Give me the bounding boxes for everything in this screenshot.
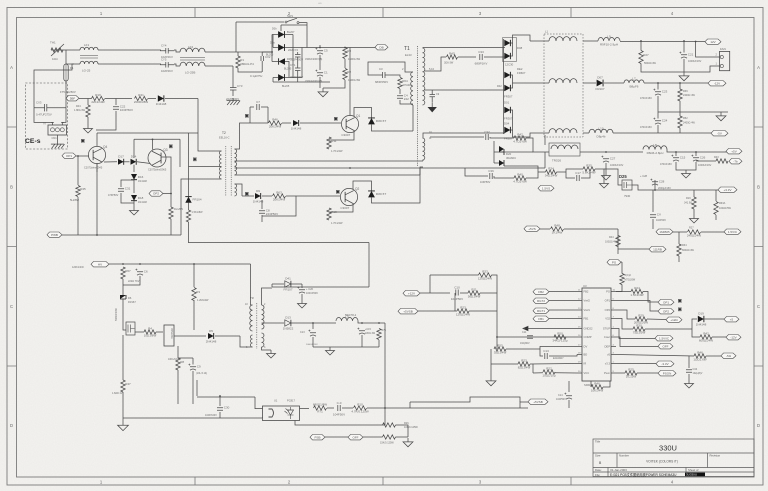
svg-text:R27: R27 bbox=[689, 227, 694, 230]
rect box outlines bbox=[503, 38, 517, 62]
svg-text:PSB: PSB bbox=[314, 435, 320, 439]
wire PG to RC2 bbox=[621, 262, 623, 274]
resistor R2 bbox=[343, 69, 352, 80]
svg-text:R3: R3 bbox=[196, 290, 200, 294]
resistor R11b bbox=[468, 287, 481, 298]
svg-text:104F50V: 104F50V bbox=[333, 413, 345, 417]
resistor R48s bbox=[447, 52, 458, 60]
capacitor CY3 bbox=[226, 84, 243, 101]
wire down to R44c bbox=[617, 229, 619, 254]
svg-text:1.5K1/8W: 1.5K1/8W bbox=[192, 211, 204, 214]
U3 right pin Cosc bbox=[611, 336, 616, 338]
svg-text:Q3: Q3 bbox=[163, 148, 167, 152]
node +5VSB flag bbox=[398, 309, 418, 314]
wire bridge + column bbox=[301, 48, 303, 78]
diode D9 bbox=[253, 189, 264, 204]
wire L1 to D07 bbox=[583, 82, 596, 84]
wire drive bottom rail bbox=[62, 234, 181, 236]
wire pair3 bar link bbox=[511, 110, 513, 130]
inductor L5 bbox=[336, 315, 358, 321]
svg-text:D03: D03 bbox=[287, 58, 292, 61]
wire C30 up bbox=[219, 396, 221, 406]
svg-text:R47: R47 bbox=[125, 382, 131, 386]
U3 left pin Vref2 bbox=[577, 300, 582, 302]
wire to C13s bbox=[312, 323, 314, 329]
junction R67 bbox=[122, 263, 124, 265]
svg-text:164B05: 164B05 bbox=[659, 230, 670, 234]
capacitor C6 bbox=[135, 269, 148, 276]
wire R42b to -12 flag bbox=[712, 336, 726, 338]
ground below D18 bbox=[130, 207, 139, 215]
node FB2 bbox=[533, 289, 549, 294]
ground below R44 bbox=[84, 125, 93, 133]
svg-text:FRD.5T: FRD.5T bbox=[376, 192, 387, 196]
svg-text:C13: C13 bbox=[300, 331, 305, 334]
wire Q3 box left down bbox=[133, 139, 135, 158]
svg-text:162p50V: 162p50V bbox=[520, 342, 530, 345]
wire to D19 bbox=[692, 319, 697, 329]
wire D17 to D14 bbox=[124, 161, 130, 163]
svg-text:L7: L7 bbox=[632, 77, 636, 81]
saturable core TRG26 bbox=[549, 143, 580, 156]
svg-text:1N4148: 1N4148 bbox=[156, 102, 167, 106]
wire C21 bottom bbox=[683, 59, 685, 72]
wire T3 sec low bbox=[262, 347, 272, 350]
wire HV to R3s bbox=[193, 264, 195, 287]
svg-text:V32: V32 bbox=[605, 317, 610, 321]
svg-text:C17: C17 bbox=[575, 171, 581, 175]
U3 left pin Vref1 bbox=[577, 309, 582, 311]
wire HV rail bbox=[109, 263, 251, 265]
junction R75 bbox=[378, 322, 380, 324]
wire bottom rail start bbox=[273, 81, 281, 83]
wire drive top rail bbox=[97, 132, 198, 134]
svg-text:+3.3V: +3.3V bbox=[724, 188, 732, 192]
capacitor C21 bbox=[679, 52, 693, 59]
svg-text:D13: D13 bbox=[285, 316, 291, 320]
svg-text:+5: +5 bbox=[730, 317, 734, 321]
svg-text:v5: v5 bbox=[607, 353, 610, 357]
svg-text:FR307: FR307 bbox=[504, 137, 513, 141]
wire R44b to bottom rail bbox=[170, 219, 172, 235]
wire CX2 top to bridge bbox=[262, 51, 272, 53]
wire d4 tap down bbox=[272, 78, 274, 83]
ground 3.3V divider bbox=[690, 215, 699, 223]
resistor R55 bbox=[494, 343, 507, 354]
wire opto collector out bbox=[300, 408, 310, 410]
svg-text:R8: R8 bbox=[180, 360, 184, 364]
wire R1 top bbox=[237, 52, 239, 56]
svg-text:C21: C21 bbox=[688, 53, 694, 57]
U3 right pin OP2 bbox=[611, 309, 616, 311]
high voltage mark near Q4 bbox=[81, 139, 85, 143]
svg-text:C3007: C3007 bbox=[340, 206, 349, 210]
wire R46b up bbox=[590, 381, 592, 387]
wire pair2 bar link bbox=[511, 75, 513, 88]
wire R41 to D08 bbox=[148, 98, 156, 100]
svg-text:FR107: FR107 bbox=[595, 87, 604, 91]
wire bridge right column bbox=[292, 35, 294, 78]
svg-text:D18: D18 bbox=[138, 196, 144, 200]
wire D20 input column bbox=[493, 141, 495, 163]
node 1.5V/C bbox=[724, 229, 741, 234]
junction OP2 bbox=[170, 193, 172, 195]
wire D19 to +5 flag bbox=[705, 318, 725, 320]
wire to R34m bbox=[538, 171, 546, 173]
svg-text:es: es bbox=[318, 1, 322, 5]
svg-text:R35: R35 bbox=[586, 163, 592, 167]
wire PG stub bbox=[621, 261, 622, 263]
svg-text:C36: C36 bbox=[488, 169, 494, 173]
node +5VSB right bbox=[528, 399, 548, 404]
wire R48s to C33 bbox=[458, 56, 476, 58]
U3 right pin DEP bbox=[611, 346, 616, 348]
wire sense bridge bbox=[454, 293, 456, 311]
wire into TRG26 bbox=[545, 151, 549, 153]
svg-text:Size: Size bbox=[595, 454, 601, 458]
svg-text:D01: D01 bbox=[504, 101, 510, 105]
capacitor C22 bbox=[113, 105, 133, 113]
wire 5VSB flag to R23 bbox=[418, 310, 457, 312]
svg-text:C5: C5 bbox=[324, 49, 328, 53]
title block file highlight bbox=[685, 473, 705, 477]
junction + rail R3 bbox=[344, 47, 346, 49]
svg-text:HV: HV bbox=[98, 262, 102, 266]
wire R24 to OP1 bbox=[643, 292, 658, 303]
wire R27b to 1.5V/C bbox=[701, 231, 724, 233]
svg-text:0.1μf275v: 0.1μf275v bbox=[250, 74, 263, 78]
PWM controller U3 body bbox=[582, 284, 611, 387]
inductor L10 bbox=[589, 127, 613, 139]
T3 primary winding bbox=[250, 305, 253, 331]
capacitor C3 bbox=[375, 67, 393, 84]
wire ground to FAN pin1 bbox=[684, 66, 720, 72]
wire L1 to L9 bbox=[583, 40, 598, 42]
wire T2 rail 1 bbox=[240, 160, 423, 162]
resistor R26 bbox=[383, 423, 396, 427]
svg-text:BL205: BL205 bbox=[266, 54, 274, 57]
wire to R26 bbox=[383, 408, 386, 425]
wire to DV pin bbox=[540, 347, 577, 350]
U3 left pin FB1 bbox=[577, 318, 582, 320]
wire R63A down bbox=[715, 215, 717, 220]
svg-text:R46: R46 bbox=[594, 381, 600, 385]
wire C13b to BD pin bbox=[549, 355, 577, 357]
svg-text:1000UF10V: 1000UF10V bbox=[610, 164, 624, 167]
mosfet U2 5N60 bbox=[115, 307, 135, 335]
resistor R42 bbox=[513, 132, 527, 143]
wire to 1.5V/IC bbox=[616, 329, 655, 339]
wire bridge d3 apex bbox=[272, 61, 279, 63]
svg-text:Vref1: Vref1 bbox=[584, 308, 591, 312]
svg-text:FB2: FB2 bbox=[584, 290, 589, 294]
node -5V bbox=[711, 131, 728, 136]
wire rect pair1 to L1 +12V bbox=[511, 35, 531, 43]
wire R44 to ground bbox=[87, 117, 89, 125]
svg-text:200R1/8W: 200R1/8W bbox=[134, 100, 148, 104]
capacitor C10 bbox=[451, 285, 463, 301]
svg-text:R6Ω6-2.8μH: R6Ω6-2.8μH bbox=[647, 151, 664, 155]
junction R27 bbox=[640, 40, 642, 42]
svg-text:1N4148: 1N4148 bbox=[291, 126, 302, 130]
svg-text:341.9Ω: 341.9Ω bbox=[684, 202, 692, 205]
wire +5V rail bbox=[667, 150, 735, 153]
inductor L8 bbox=[643, 143, 667, 155]
svg-text:B: B bbox=[757, 185, 760, 190]
resistor R46c bbox=[693, 350, 706, 361]
diode D0A rect bbox=[504, 53, 510, 59]
svg-text:File:: File: bbox=[595, 473, 601, 477]
wire D6z down bbox=[122, 299, 124, 320]
wire Q3 box right down bbox=[179, 139, 181, 167]
wire into L1 +12V winding bbox=[530, 40, 549, 42]
svg-text:2000μF16V: 2000μF16V bbox=[658, 187, 671, 190]
svg-text:R22: R22 bbox=[546, 366, 552, 370]
svg-text:FR107: FR107 bbox=[283, 288, 292, 292]
svg-text:120Ω1/4W: 120Ω1/4W bbox=[478, 277, 492, 281]
wire +5VS to R48b bbox=[540, 228, 550, 230]
wire C22 down bbox=[96, 111, 116, 130]
svg-text:1.7K1/4W: 1.7K1/4W bbox=[331, 221, 343, 225]
wire R71 to C10b bbox=[327, 407, 334, 409]
svg-text:2400Ω 4W: 2400Ω 4W bbox=[683, 122, 696, 125]
T3 secondary winding 2 bbox=[262, 333, 264, 347]
svg-text:12V: 12V bbox=[710, 40, 715, 44]
svg-text:+12V: +12V bbox=[408, 291, 415, 295]
capacitor C24 bbox=[653, 118, 667, 125]
svg-text:110F50V: 110F50V bbox=[656, 219, 666, 222]
svg-text:L8: L8 bbox=[653, 143, 657, 147]
svg-text:5.8K1/4W: 5.8K1/4W bbox=[582, 171, 595, 175]
svg-text:12C30: 12C30 bbox=[505, 63, 514, 67]
svg-text:0.47UF275V: 0.47UF275V bbox=[36, 113, 52, 117]
svg-text:RGT1: RGT1 bbox=[537, 309, 545, 313]
wire PSB to OFF bbox=[325, 436, 348, 438]
wire sense link bbox=[429, 275, 431, 293]
svg-text:D5: D5 bbox=[209, 329, 213, 333]
junction C15b bbox=[675, 151, 677, 153]
svg-text:82Ω1/4W: 82Ω1/4W bbox=[518, 366, 531, 370]
svg-text:LG-25: LG-25 bbox=[82, 69, 91, 73]
svg-text:D0a: D0a bbox=[270, 42, 275, 45]
svg-text:222: 222 bbox=[404, 97, 409, 101]
svg-text:CY4: CY4 bbox=[161, 44, 167, 48]
wire C17 right bbox=[581, 172, 590, 178]
resistor R17 bbox=[383, 435, 396, 439]
resistor R29 bbox=[634, 313, 648, 324]
wire d1 out bbox=[285, 34, 293, 36]
wire T2 rail3 stub bbox=[235, 174, 241, 176]
resistor R19 bbox=[91, 93, 105, 104]
wire to R43 bbox=[696, 160, 716, 162]
diode D07 bbox=[595, 75, 604, 90]
wire R26 to gnd col bbox=[396, 425, 409, 437]
svg-text:Q4: Q4 bbox=[103, 145, 107, 149]
svg-text:7930: 7930 bbox=[624, 194, 631, 198]
wire PS-ON rail to 5VSB flag bbox=[367, 407, 528, 409]
inductor L9 bbox=[598, 35, 620, 47]
wire D11 out bbox=[291, 283, 302, 285]
node +5V return bbox=[729, 159, 742, 164]
resistor R44b bbox=[169, 207, 173, 219]
capacitor C36 bbox=[488, 169, 494, 179]
chassis ground at inlet bbox=[51, 142, 65, 149]
wire bridge top to SW node bbox=[281, 24, 307, 26]
svg-text:C9: C9 bbox=[197, 365, 201, 369]
svg-text:R2: R2 bbox=[347, 70, 351, 74]
svg-text:C1: C1 bbox=[324, 71, 328, 75]
resistor R46b bbox=[591, 381, 604, 392]
wire U2 to R4 bbox=[135, 331, 144, 333]
wire C6 down bbox=[123, 276, 140, 285]
junction C6 bbox=[139, 263, 141, 265]
wire to R22 bbox=[533, 372, 543, 374]
node RGT2 bbox=[533, 298, 549, 303]
resistor R71 bbox=[313, 402, 327, 413]
wire to R19b bbox=[693, 190, 695, 197]
wire R04 to C4 bbox=[399, 89, 401, 94]
node PG bbox=[607, 260, 621, 265]
wire to R42b bbox=[692, 329, 700, 337]
svg-text:(10L-5.1b): (10L-5.1b) bbox=[196, 372, 207, 375]
svg-text:222Ω 7KV: 222Ω 7KV bbox=[128, 280, 140, 283]
node OFF bbox=[658, 344, 673, 349]
wire C26a down bbox=[301, 294, 303, 300]
wire base node to R45 bbox=[77, 156, 79, 185]
wire T2 lower to D9 stub bbox=[242, 195, 254, 197]
transistor Q2 bbox=[340, 187, 359, 210]
svg-text:FAN: FAN bbox=[720, 47, 726, 51]
wire CY1 to bottom rail bbox=[297, 75, 299, 83]
wire RGT1 to U3 bbox=[549, 309, 577, 311]
svg-text:+C15: +C15 bbox=[365, 328, 371, 331]
wire d4 out bbox=[285, 77, 302, 79]
wire C5 to C1 bbox=[319, 55, 321, 70]
svg-text:10K1/10V: 10K1/10V bbox=[168, 358, 179, 361]
U3 right pin v5 bbox=[611, 354, 616, 356]
svg-text:R43: R43 bbox=[714, 156, 719, 159]
wire link top bbox=[430, 274, 455, 276]
wire to R30 bbox=[616, 319, 633, 330]
wire C8 to base node bbox=[262, 196, 296, 216]
svg-text:Sheet of: Sheet of bbox=[688, 468, 699, 472]
svg-text:R23: R23 bbox=[460, 305, 466, 309]
wire D20 bottom out bbox=[504, 166, 538, 168]
junction HV R3s bbox=[193, 263, 195, 265]
svg-text:Cosc: Cosc bbox=[604, 335, 611, 339]
FAN connector J1 bbox=[716, 47, 730, 71]
wire R33 left bbox=[455, 274, 479, 276]
wire d4 left bbox=[273, 77, 278, 79]
capacitor C33 bbox=[475, 50, 488, 66]
wire C7 right bbox=[261, 106, 268, 108]
wire R35 to ground bbox=[595, 169, 604, 180]
U3 right pin OP1 bbox=[611, 300, 616, 302]
svg-text:IR: IR bbox=[584, 362, 587, 366]
wire to R29 bbox=[616, 310, 635, 319]
wire C10 to R11b bbox=[460, 292, 468, 294]
junction bottom rail Q4 bbox=[96, 234, 98, 236]
wire Q3 base to OP2 column bbox=[162, 157, 172, 194]
wire R46 to D6 bbox=[282, 122, 291, 124]
capacitor C9 bbox=[188, 364, 201, 371]
capacitor C15s bbox=[357, 328, 365, 335]
wire to R52 bbox=[679, 112, 681, 116]
wire R19 node to R44 bbox=[87, 99, 89, 106]
wire R47 to ground rail bbox=[122, 392, 124, 418]
svg-text:10Ω: 10Ω bbox=[52, 57, 58, 61]
wire TH1 to fuse node bbox=[51, 49, 66, 51]
wire Q4 down bbox=[96, 164, 98, 173]
diode D18 bbox=[131, 195, 144, 201]
junction C27 bbox=[605, 151, 607, 153]
capacitor C9 at T1 bbox=[430, 90, 440, 103]
wire C13s down bbox=[312, 337, 314, 347]
wire to R24 bbox=[616, 291, 631, 293]
svg-text:R27: R27 bbox=[643, 53, 649, 57]
svg-text:R39: R39 bbox=[683, 90, 688, 93]
resistor R1 bbox=[236, 56, 254, 68]
svg-text:75Ω1/5W: 75Ω1/5W bbox=[633, 331, 646, 335]
output choke L1 dashed box bbox=[544, 34, 583, 137]
diode D08 rect bbox=[504, 40, 510, 46]
svg-text:R41: R41 bbox=[138, 93, 144, 97]
svg-text:OP1: OP1 bbox=[66, 154, 72, 158]
svg-text:R42: R42 bbox=[703, 331, 709, 335]
svg-text:5RΩ/7R-2: 5RΩ/7R-2 bbox=[345, 314, 357, 317]
svg-text:R26: R26 bbox=[404, 422, 409, 425]
L1 winding +12V bbox=[549, 37, 577, 41]
svg-text:R4Ω: R4Ω bbox=[449, 52, 456, 56]
U3 right pin Pwm bbox=[611, 372, 616, 374]
primary standby ground bbox=[118, 421, 129, 431]
wire RC2 to PG pin bbox=[616, 285, 622, 292]
wire inlet line pin bbox=[62, 108, 66, 125]
wire to R23b bbox=[491, 363, 518, 365]
secondary rectifier input column bbox=[503, 39, 505, 134]
svg-text:U1: U1 bbox=[274, 399, 278, 403]
wire C23 down bbox=[657, 96, 659, 112]
wire T2 rail 2 bbox=[240, 167, 545, 169]
svg-text:R10: R10 bbox=[357, 402, 363, 406]
svg-text:VCC: VCC bbox=[584, 371, 590, 375]
svg-text:1000UF16V: 1000UF16V bbox=[698, 164, 712, 167]
wire -12V rail bbox=[644, 82, 709, 84]
wire U2 source down bbox=[122, 335, 124, 380]
high mark OP1 bbox=[678, 299, 682, 303]
svg-text:D07: D07 bbox=[597, 75, 603, 79]
svg-text:EEL16-C: EEL16-C bbox=[219, 136, 230, 140]
wire R75 down bbox=[378, 340, 380, 347]
wire C31 top bbox=[121, 180, 134, 187]
svg-text:DC15W: DC15W bbox=[626, 375, 637, 379]
wire C7 left leg bbox=[249, 107, 251, 123]
wire +12V sense bbox=[420, 292, 450, 294]
node OP2 bbox=[149, 191, 163, 196]
svg-text:1K1/4W: 1K1/4W bbox=[552, 231, 563, 235]
wire aux loop right bbox=[368, 243, 370, 288]
resistor R34m bbox=[545, 167, 558, 178]
capacitor C27 bbox=[601, 156, 615, 163]
T1 secondary winding upper bbox=[423, 48, 425, 105]
wire CY4 to LF2 bbox=[174, 50, 180, 52]
resistor R42b bbox=[699, 331, 713, 342]
inductor L7 bbox=[624, 77, 644, 89]
wire C7 right leg bbox=[267, 107, 269, 123]
svg-text:5N60/NK60: 5N60/NK60 bbox=[115, 307, 118, 321]
svg-text:1.8K1/4W: 1.8K1/4W bbox=[74, 109, 86, 112]
wire U4 to D5 bbox=[174, 335, 206, 337]
